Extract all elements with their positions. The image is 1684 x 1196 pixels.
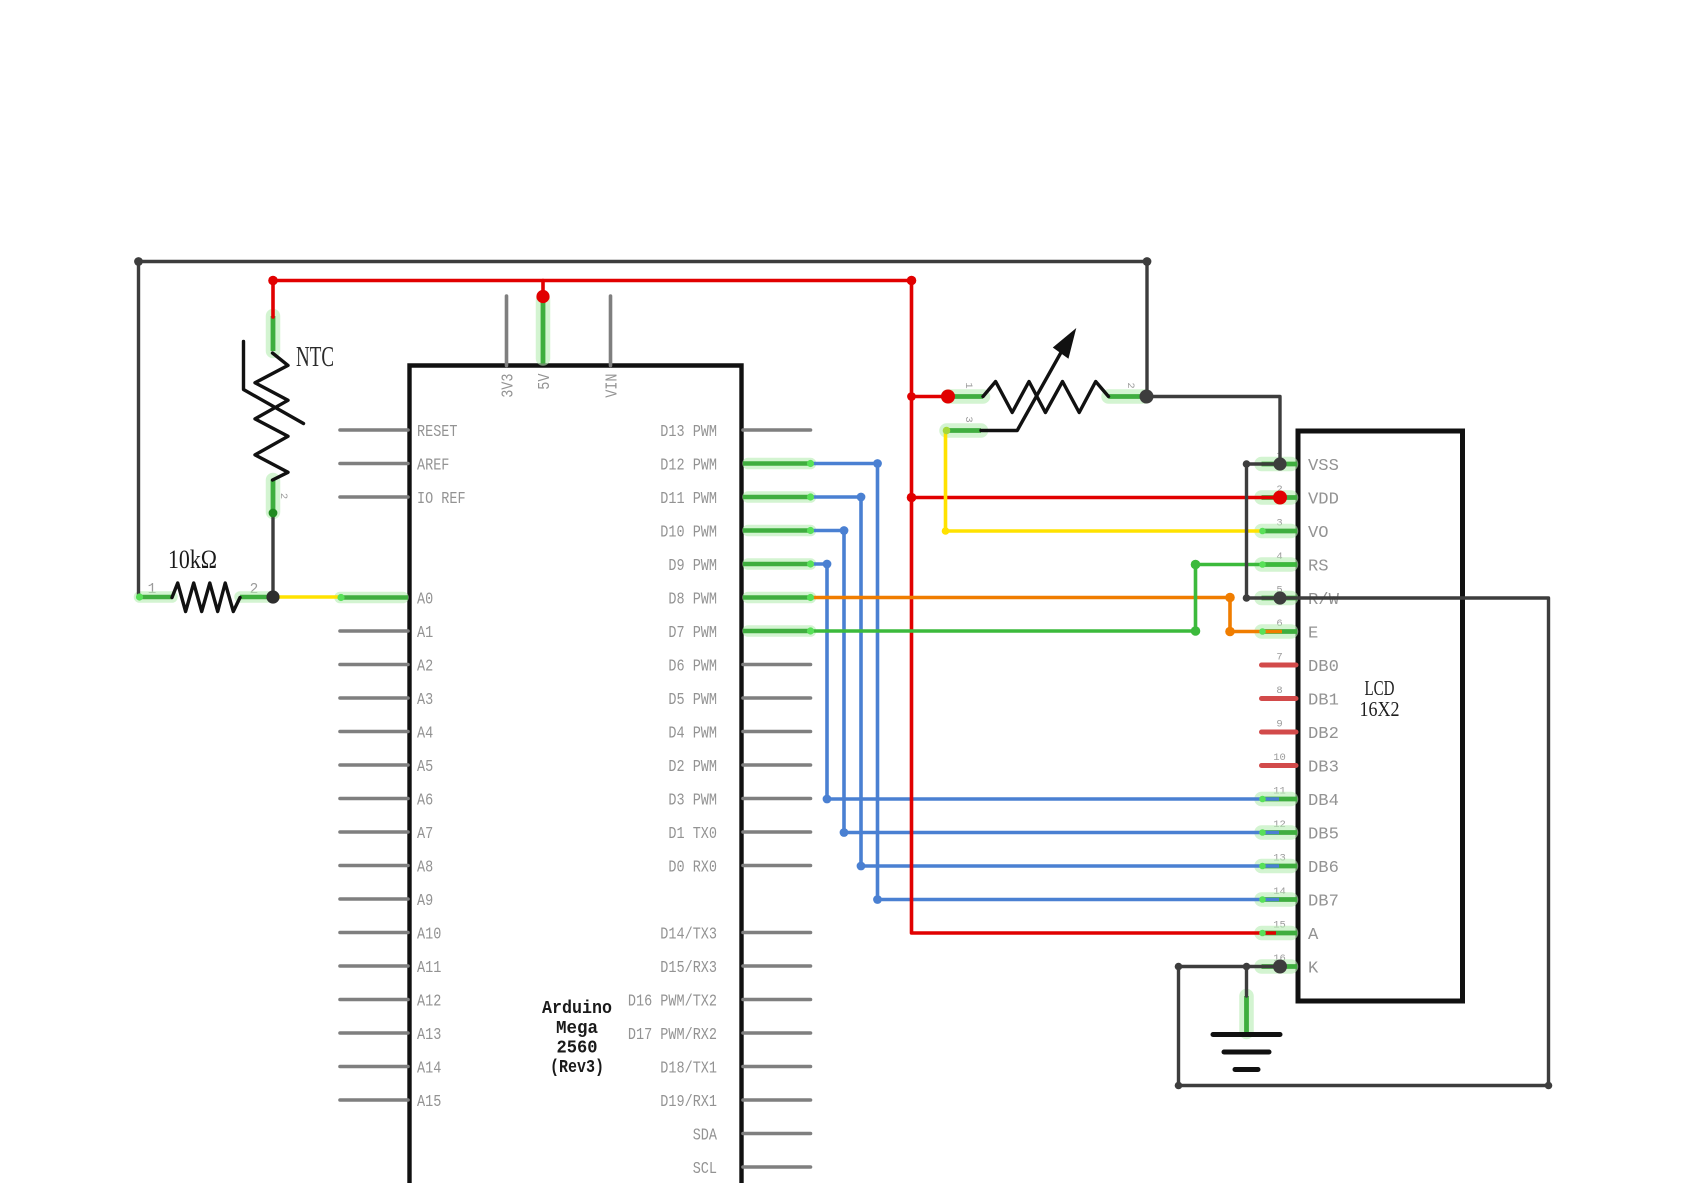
svg-text:A11: A11 bbox=[417, 959, 441, 978]
svg-text:A13: A13 bbox=[417, 1026, 441, 1045]
svg-text:A: A bbox=[1308, 926, 1319, 945]
svg-text:A8: A8 bbox=[417, 859, 433, 878]
svg-text:2: 2 bbox=[1124, 382, 1136, 388]
svg-text:D9 PWM: D9 PWM bbox=[668, 557, 717, 576]
svg-text:RESET: RESET bbox=[417, 423, 458, 442]
svg-text:SCL: SCL bbox=[693, 1160, 717, 1179]
svg-text:7: 7 bbox=[1276, 652, 1282, 664]
svg-text:A1: A1 bbox=[417, 624, 433, 643]
svg-text:AREF: AREF bbox=[417, 457, 449, 476]
svg-text:A7: A7 bbox=[417, 825, 433, 844]
svg-text:A9: A9 bbox=[417, 892, 433, 911]
svg-text:D13 PWM: D13 PWM bbox=[660, 423, 717, 442]
svg-text:D17 PWM/RX2: D17 PWM/RX2 bbox=[628, 1026, 717, 1045]
svg-text:A2: A2 bbox=[417, 658, 433, 677]
svg-text:D11 PWM: D11 PWM bbox=[660, 490, 717, 509]
svg-text:SDA: SDA bbox=[693, 1127, 718, 1146]
svg-text:DB7: DB7 bbox=[1308, 893, 1339, 912]
svg-text:D5 PWM: D5 PWM bbox=[668, 691, 717, 710]
svg-text:DB5: DB5 bbox=[1308, 826, 1339, 845]
svg-text:D8 PWM: D8 PWM bbox=[668, 591, 717, 610]
svg-text:A5: A5 bbox=[417, 758, 433, 777]
svg-text:DB3: DB3 bbox=[1308, 759, 1339, 778]
svg-text:IO REF: IO REF bbox=[417, 490, 466, 509]
svg-text:A12: A12 bbox=[417, 993, 441, 1012]
svg-text:D16 PWM/TX2: D16 PWM/TX2 bbox=[628, 993, 717, 1012]
svg-text:A3: A3 bbox=[417, 691, 433, 710]
svg-text:16X2: 16X2 bbox=[1360, 697, 1400, 721]
svg-text:D18/TX1: D18/TX1 bbox=[660, 1060, 717, 1079]
svg-text:VO: VO bbox=[1308, 524, 1329, 543]
svg-text:A6: A6 bbox=[417, 792, 433, 811]
svg-text:K: K bbox=[1308, 960, 1319, 979]
svg-text:D4 PWM: D4 PWM bbox=[668, 725, 717, 744]
svg-text:R/W: R/W bbox=[1308, 591, 1340, 610]
svg-text:DB4: DB4 bbox=[1308, 792, 1339, 811]
svg-text:A4: A4 bbox=[417, 725, 433, 744]
svg-text:DB6: DB6 bbox=[1308, 859, 1339, 878]
svg-text:D14/TX3: D14/TX3 bbox=[660, 926, 717, 945]
svg-text:2560: 2560 bbox=[557, 1039, 598, 1059]
svg-text:1: 1 bbox=[962, 382, 974, 388]
svg-text:D12 PWM: D12 PWM bbox=[660, 457, 717, 476]
svg-text:RS: RS bbox=[1308, 558, 1329, 577]
svg-text:3V3: 3V3 bbox=[500, 374, 519, 398]
svg-text:A10: A10 bbox=[417, 926, 441, 945]
svg-text:9: 9 bbox=[1276, 719, 1282, 731]
svg-text:D7 PWM: D7 PWM bbox=[668, 624, 717, 643]
svg-text:D15/RX3: D15/RX3 bbox=[660, 959, 717, 978]
svg-text:DB0: DB0 bbox=[1308, 658, 1339, 677]
svg-text:NTC: NTC bbox=[296, 342, 334, 373]
svg-text:VSS: VSS bbox=[1308, 457, 1339, 476]
svg-text:10: 10 bbox=[1273, 752, 1286, 764]
svg-text:DB1: DB1 bbox=[1308, 692, 1339, 711]
svg-text:D0 RX0: D0 RX0 bbox=[668, 859, 717, 878]
svg-text:3: 3 bbox=[962, 416, 974, 422]
svg-text:5V: 5V bbox=[536, 373, 555, 390]
svg-text:VIN: VIN bbox=[604, 374, 623, 398]
svg-text:(Rev3): (Rev3) bbox=[550, 1058, 604, 1078]
svg-text:D1 TX0: D1 TX0 bbox=[668, 825, 717, 844]
svg-text:10kΩ: 10kΩ bbox=[168, 545, 217, 574]
svg-text:E: E bbox=[1308, 625, 1318, 644]
svg-text:VDD: VDD bbox=[1308, 491, 1339, 510]
svg-text:8: 8 bbox=[1276, 685, 1282, 697]
svg-text:A15: A15 bbox=[417, 1093, 441, 1112]
svg-text:D3 PWM: D3 PWM bbox=[668, 792, 717, 811]
svg-text:DB2: DB2 bbox=[1308, 725, 1339, 744]
svg-text:A14: A14 bbox=[417, 1060, 441, 1079]
svg-text:D2 PWM: D2 PWM bbox=[668, 758, 717, 777]
svg-text:A0: A0 bbox=[417, 591, 433, 610]
svg-text:Arduino: Arduino bbox=[542, 999, 612, 1019]
svg-text:D19/RX1: D19/RX1 bbox=[660, 1093, 717, 1112]
svg-text:Mega: Mega bbox=[556, 1019, 598, 1039]
svg-text:D10 PWM: D10 PWM bbox=[660, 524, 717, 543]
svg-text:D6 PWM: D6 PWM bbox=[668, 658, 717, 677]
